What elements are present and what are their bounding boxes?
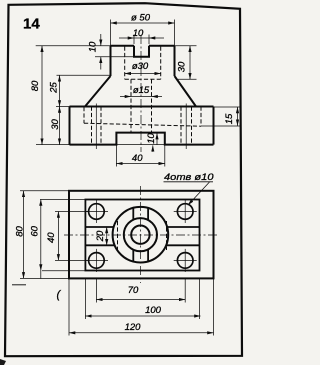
top face	[111, 45, 175, 47]
dimension 10 notch lower arrow	[152, 145, 154, 151]
svg-text:30: 30	[50, 119, 61, 130]
svg-text:10: 10	[146, 133, 157, 144]
dimension 60 plan	[40, 200, 42, 271]
inner rect	[85, 200, 199, 271]
slants	[85, 76, 196, 107]
page border frame	[5, 3, 242, 356]
dimension 80 plan	[23, 191, 25, 279]
svg-text:40: 40	[46, 232, 57, 243]
base bottom with notch	[70, 133, 214, 145]
svg-text:ø30: ø30	[132, 61, 149, 72]
plan center lines	[64, 186, 219, 283]
svg-text:14: 14	[23, 16, 40, 33]
svg-text:30: 30	[176, 61, 187, 72]
dimension 70 plan	[96, 299, 185, 301]
svg-text:25: 25	[49, 82, 60, 94]
plan thin extension lines	[20, 191, 214, 336]
stray mark	[12, 284, 26, 286]
circle o50	[113, 207, 169, 263]
ext lines o50	[111, 20, 175, 46]
center line front	[140, 35, 142, 152]
dimension 30 left	[59, 107, 61, 145]
svg-text:80: 80	[15, 226, 26, 237]
ext lines 100 plan	[85, 279, 199, 319]
ext lines 70 plan	[96, 279, 185, 303]
dimension 25 left	[59, 75, 61, 106]
svg-text:10: 10	[133, 28, 144, 39]
ext line slot bottom	[95, 56, 134, 58]
hidden lines	[84, 47, 201, 145]
ext lines 10 slot	[134, 35, 149, 45]
leader 4otv	[188, 182, 210, 205]
circle o30	[124, 218, 157, 251]
ext lines 60 plan	[40, 200, 85, 271]
svg-text:ø15: ø15	[133, 85, 150, 96]
dimension 100 plan	[85, 315, 200, 317]
thin extension lines front	[36, 20, 241, 167]
dimension 10 notch upper arrow	[156, 133, 158, 145]
bolt hole center marks	[85, 200, 197, 272]
channel hidden	[84, 107, 201, 127]
svg-text:10: 10	[88, 41, 99, 52]
svg-text:15: 15	[224, 113, 235, 124]
svg-text:120: 120	[125, 322, 142, 333]
svg-text:(: (	[57, 289, 62, 301]
svg-text:100: 100	[145, 305, 162, 316]
ext line across notch	[116, 144, 164, 146]
bolt holes plan	[89, 204, 193, 268]
dimension 80 left	[41, 46, 43, 145]
dimension 40 bottom	[116, 163, 164, 165]
ext line base top left	[56, 106, 70, 108]
ext lines 40 plan	[55, 212, 88, 261]
stub under 60 dim	[40, 271, 42, 279]
ext line o30 bottom	[178, 78, 197, 80]
svg-text:60: 60	[30, 225, 41, 236]
channel lines plan	[85, 227, 199, 245]
block sides	[111, 46, 175, 76]
ext line 30 right top	[175, 45, 197, 47]
svg-text:70: 70	[128, 285, 139, 296]
plan hidden notch walls	[118, 221, 167, 250]
ext lines 120 plan	[69, 279, 214, 336]
dimension 10 slot width	[119, 37, 164, 39]
base sides	[70, 107, 214, 145]
dimension o30	[125, 73, 161, 75]
dimension o50	[111, 22, 175, 24]
dimension 20 plan lines	[106, 227, 108, 245]
bolt hole centerlines front	[96, 104, 186, 150]
dimension 30 right	[189, 46, 191, 80]
ext lines 80 plan	[20, 191, 69, 279]
leader shelf under note	[164, 181, 214, 183]
svg-text:ø 50: ø 50	[131, 13, 151, 24]
o15 hole	[131, 79, 152, 132]
circle o15	[131, 226, 149, 244]
svg-text:80: 80	[30, 80, 41, 91]
outer rect	[69, 191, 214, 279]
dimension 120 plan	[69, 332, 214, 334]
ext lines 40 bottom	[116, 145, 164, 166]
base top	[70, 106, 214, 108]
dimension 10 slot depth left	[100, 34, 102, 70]
ext line top face left	[36, 45, 111, 47]
svg-text:40: 40	[132, 153, 143, 164]
dimension o15	[120, 96, 162, 98]
slot walls and bottom	[134, 46, 149, 57]
ext line shoulder	[57, 74, 111, 76]
bolt holes	[92, 107, 192, 145]
scan mark bottom left	[0, 359, 6, 365]
dimension 15 right	[237, 107, 239, 126]
svg-text:4отв ø10: 4отв ø10	[164, 172, 214, 183]
svg-text:20: 20	[95, 230, 106, 242]
ext line base bottom left	[36, 144, 70, 146]
slot lines plan	[133, 208, 148, 261]
dimension 40 plan	[57, 212, 59, 261]
o30 hole	[125, 47, 161, 80]
ext lines 15 right	[201, 107, 241, 126]
